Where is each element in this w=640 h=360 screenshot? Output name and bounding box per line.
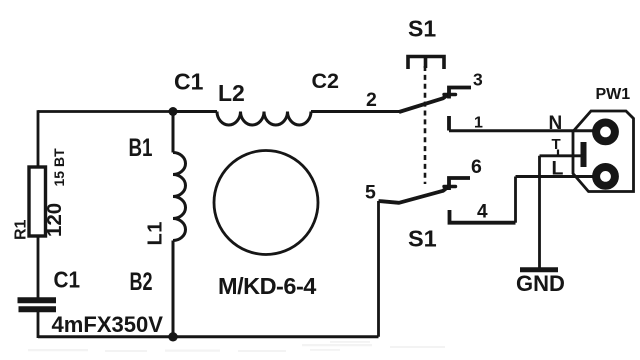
svg-text:L2: L2 [218, 80, 245, 106]
wire C1 to bottom rail [37, 310, 40, 338]
contact stub pin 1 [447, 116, 451, 131]
svg-text:6: 6 [471, 156, 482, 178]
svg-text:PW1: PW1 [596, 86, 631, 103]
motor M/KD-6-4 circle [214, 151, 318, 255]
wire L2 to switch pin 2 [311, 110, 401, 113]
resistor R1 [29, 167, 46, 236]
svg-text:M/KD-6-4: M/KD-6-4 [218, 273, 316, 299]
svg-text:R1: R1 [13, 219, 30, 240]
svg-text:C2: C2 [312, 69, 340, 93]
plug pin L ring [596, 167, 615, 186]
T label stub [557, 150, 559, 157]
inductor L1 winding vertical [173, 112, 186, 337]
wire right vertical riser to switch pole 5 [377, 201, 380, 337]
switch S1 mechanical link dashed line [424, 66, 427, 184]
svg-text:15 BT: 15 BT [51, 148, 67, 187]
svg-text:S1: S1 [408, 15, 436, 41]
contact stub pin 3 [449, 88, 471, 99]
svg-text:1: 1 [474, 115, 483, 132]
svg-text:L1: L1 [145, 221, 167, 245]
svg-text:5: 5 [365, 182, 376, 204]
plug PW1 body [573, 111, 634, 192]
svg-text:B1: B1 [129, 134, 153, 162]
ground GND symbol bar [520, 267, 558, 272]
capacitor C1 plate bottom [19, 306, 57, 312]
faint scan noise band at bottom [28, 341, 445, 352]
svg-text:GND: GND [516, 271, 565, 296]
wire L into plug [573, 175, 599, 178]
wire T bar to ground [540, 154, 584, 157]
junction dot bottom of L1 [168, 332, 177, 341]
node C1 junction dot [169, 107, 178, 116]
wire N from pin 1 to plug [449, 129, 597, 132]
capacitor C1 plate top [18, 297, 57, 303]
svg-text:3: 3 [473, 70, 483, 90]
contact stub pin 4 [450, 210, 516, 223]
inductor L2 winding horizontal [173, 112, 311, 126]
wire pin 4 riser [514, 177, 517, 223]
wire top-left horizontal [38, 110, 173, 113]
svg-text:B2: B2 [130, 268, 153, 296]
wire R1 to C1 [37, 236, 40, 298]
plug earth T bar [581, 142, 587, 167]
svg-text:2: 2 [366, 89, 377, 111]
svg-text:L: L [552, 158, 564, 180]
switch S1 upper arm (pole 2) [399, 95, 448, 112]
wire bottom rail [38, 335, 379, 338]
svg-text:N: N [549, 113, 563, 134]
plug pin N ring [596, 122, 615, 141]
wire N into plug [573, 129, 599, 132]
contact stub pin 6 [449, 178, 470, 190]
svg-text:T: T [552, 136, 561, 153]
wire ground vertical [538, 156, 541, 269]
wire L to plug [516, 175, 597, 178]
wire left vertical to R1 [37, 110, 40, 168]
svg-text:C1: C1 [174, 69, 204, 95]
svg-text:C1: C1 [54, 267, 81, 293]
switch S1 actuator bracket [408, 57, 444, 70]
svg-text:120: 120 [43, 203, 66, 237]
svg-text:S1: S1 [408, 226, 437, 252]
svg-text:4: 4 [477, 202, 488, 223]
svg-text:4mFX350V: 4mFX350V [52, 312, 164, 337]
switch S1 lower arm (pole 5) [379, 187, 449, 203]
